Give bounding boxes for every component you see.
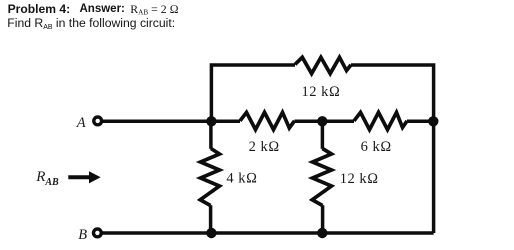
label RAB xyxy=(35,169,59,188)
wire middle 2k to 6k xyxy=(295,120,355,124)
label 12 kOhm vertical xyxy=(340,171,379,187)
label 2 kOhm xyxy=(249,139,280,155)
svg-text:12 kΩ: 12 kΩ xyxy=(340,171,379,187)
wire top right section xyxy=(351,65,434,121)
svg-text:12 kΩ: 12 kΩ xyxy=(302,84,341,100)
resistor 4 kOhm vertical xyxy=(200,149,219,206)
svg-text:A: A xyxy=(76,115,86,131)
svg-text:2 kΩ: 2 kΩ xyxy=(249,139,280,155)
wire node2 down to 12k resistor xyxy=(321,121,325,149)
junction dot bottom-center xyxy=(317,228,327,238)
wire 12k resistor to bottom xyxy=(321,205,325,233)
resistor 12 kOhm vertical xyxy=(312,149,331,206)
resistor 6 kOhm horizontal xyxy=(354,112,407,129)
terminal A open circle xyxy=(94,117,102,125)
svg-text:RAB: RAB xyxy=(35,169,59,188)
label 6 kOhm xyxy=(361,139,392,155)
junction dot node1 middle-left xyxy=(206,116,216,126)
svg-text:4 kΩ: 4 kΩ xyxy=(226,171,257,187)
arrow RAB direction xyxy=(68,171,100,183)
heading: RAB = 2 Ohm xyxy=(130,4,178,17)
wire 4k resistor to bottom xyxy=(209,205,213,233)
label terminal B xyxy=(78,227,87,243)
resistor 12 kOhm top horizontal xyxy=(295,57,351,73)
wire middle A to 2k xyxy=(101,120,240,124)
svg-text:B: B xyxy=(78,227,87,243)
junction dot node2 middle-center xyxy=(317,116,327,126)
terminal B open circle xyxy=(94,229,102,237)
resistor 2 kOhm horizontal xyxy=(240,112,295,129)
wire node1 down to 4k resistor xyxy=(209,121,213,149)
wire bottom B to right rail xyxy=(101,231,434,235)
wire middle 6k to right rail xyxy=(407,120,434,124)
wire right rail lower section xyxy=(432,121,436,233)
label 12 kOhm top xyxy=(302,84,341,100)
junction dot bottom-left xyxy=(206,228,216,238)
label terminal A xyxy=(76,115,86,131)
label 4 kOhm xyxy=(226,171,257,187)
junction dot node3 middle-right xyxy=(428,116,438,126)
svg-text:6 kΩ: 6 kΩ xyxy=(361,139,392,155)
wire left rail top section xyxy=(211,65,295,121)
heading: Answer: xyxy=(80,4,125,16)
subtitle: Find RAB in the following circuit: xyxy=(7,17,175,31)
heading: Problem 4: xyxy=(8,3,71,15)
